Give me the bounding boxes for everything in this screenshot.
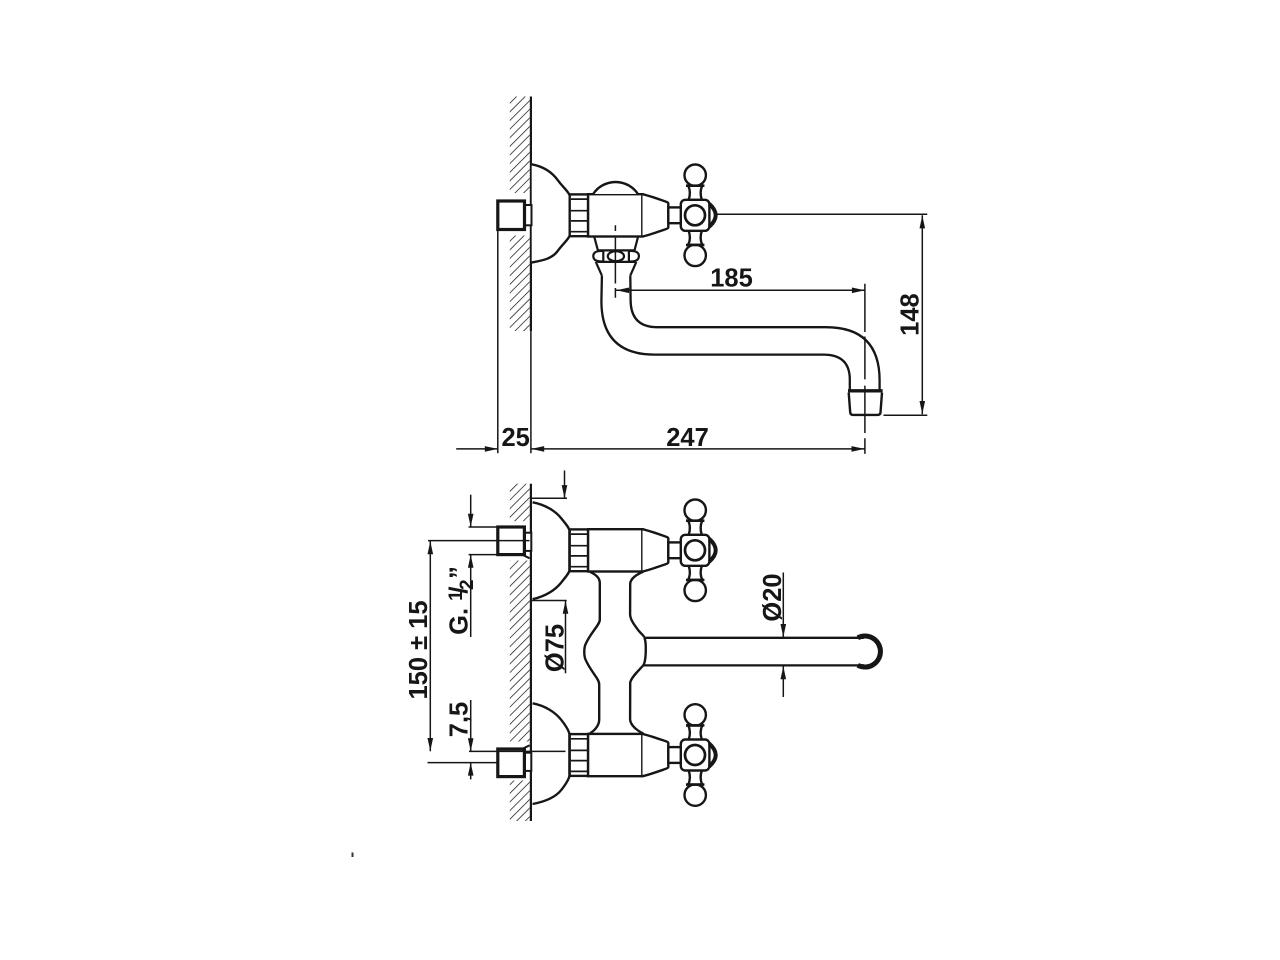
dim 247 line	[531, 448, 864, 450]
column right edge upper	[630, 572, 644, 638]
handle extension line	[717, 213, 928, 215]
svg-text:25: 25	[502, 424, 530, 452]
top valve assembly	[570, 500, 716, 602]
dim 148 line	[921, 215, 923, 414]
spout centerline / extension	[864, 284, 866, 454]
dim 150 ext line top (fitting axis)	[428, 540, 530, 542]
dim 7,5 lower line	[470, 763, 472, 780]
spout nut bottom line	[598, 261, 636, 263]
spout nut ellipse	[608, 251, 624, 261]
O75 bottom leader	[565, 601, 567, 674]
O75 top leader	[564, 471, 566, 499]
spout nut left knob	[593, 251, 603, 261]
escutcheon bell	[532, 164, 570, 262]
svg-text:148: 148	[897, 293, 925, 336]
spout collar	[594, 237, 638, 250]
wall fitting square	[498, 201, 525, 230]
O75 top ext line	[531, 497, 567, 499]
aerator joint line	[848, 389, 883, 392]
spout tube front: bottom edge	[643, 664, 864, 666]
spout neck taper	[596, 262, 602, 276]
bottom neck chamfer	[522, 745, 529, 749]
wall hatch	[510, 484, 530, 522]
fitting extension line	[497, 231, 499, 454]
top fitting square	[498, 527, 525, 555]
wall face line	[530, 484, 532, 821]
ext line valve axis bottom	[469, 750, 566, 752]
valve assembly	[570, 165, 716, 267]
spout tube outer edge	[601, 276, 849, 390]
G 1/2 upper leader	[470, 495, 472, 527]
svg-text:247: 247	[666, 424, 709, 452]
top neck chamfer	[522, 555, 529, 559]
aerator body	[849, 393, 882, 415]
O20 lower leader	[782, 666, 784, 697]
spout nut right knob	[629, 251, 639, 261]
G 1/2 lower leader	[470, 555, 472, 637]
bottom fitting neck	[525, 753, 532, 771]
column right edge lower	[630, 665, 643, 733]
dim 25 tail+arrow	[456, 448, 498, 450]
ext line bottom fitting axis	[428, 762, 498, 764]
dim 185 line	[616, 289, 865, 291]
spout end cap	[858, 636, 881, 667]
svg-text:Ø20: Ø20	[759, 573, 787, 621]
O75 bottom ext line	[531, 600, 567, 602]
svg-text:150 ± 15: 150 ± 15	[405, 600, 433, 699]
spout tube inner edge	[630, 276, 879, 390]
wall face line	[530, 97, 532, 332]
column left edge	[584, 572, 600, 734]
bottom valve assembly	[570, 704, 716, 806]
dim 150±15 line	[429, 541, 431, 751]
svg-text:Ø75: Ø75	[542, 624, 570, 672]
valve centerline	[614, 225, 616, 297]
aerator extension line	[884, 414, 928, 416]
G 1/2 ext line top	[469, 526, 498, 528]
wall fitting neck	[523, 205, 532, 225]
spout tube front: top edge	[644, 637, 863, 639]
svg-text:185: 185	[710, 264, 753, 292]
top escutcheon bell	[533, 502, 570, 599]
G 1/2 ext line bottom	[469, 554, 498, 556]
wall hatch	[510, 97, 530, 194]
dome on body	[593, 182, 638, 194]
spout boss arc	[643, 638, 646, 666]
dim 7,5 upper line	[470, 700, 472, 751]
stray speck	[352, 853, 354, 858]
top fitting neck	[525, 533, 532, 551]
bottom escutcheon bell	[533, 703, 570, 804]
O20 upper leader	[782, 573, 784, 638]
bottom fitting square	[498, 749, 525, 777]
svg-text:7,5: 7,5	[445, 702, 473, 737]
